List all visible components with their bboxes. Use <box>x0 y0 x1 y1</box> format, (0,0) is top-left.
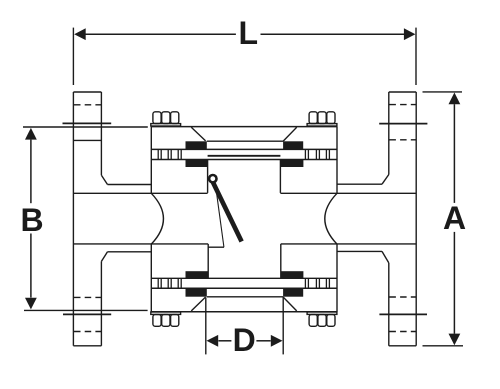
svg-text:L: L <box>239 15 259 51</box>
svg-text:A: A <box>443 200 466 236</box>
svg-text:B: B <box>20 202 43 238</box>
svg-text:D: D <box>233 322 256 358</box>
